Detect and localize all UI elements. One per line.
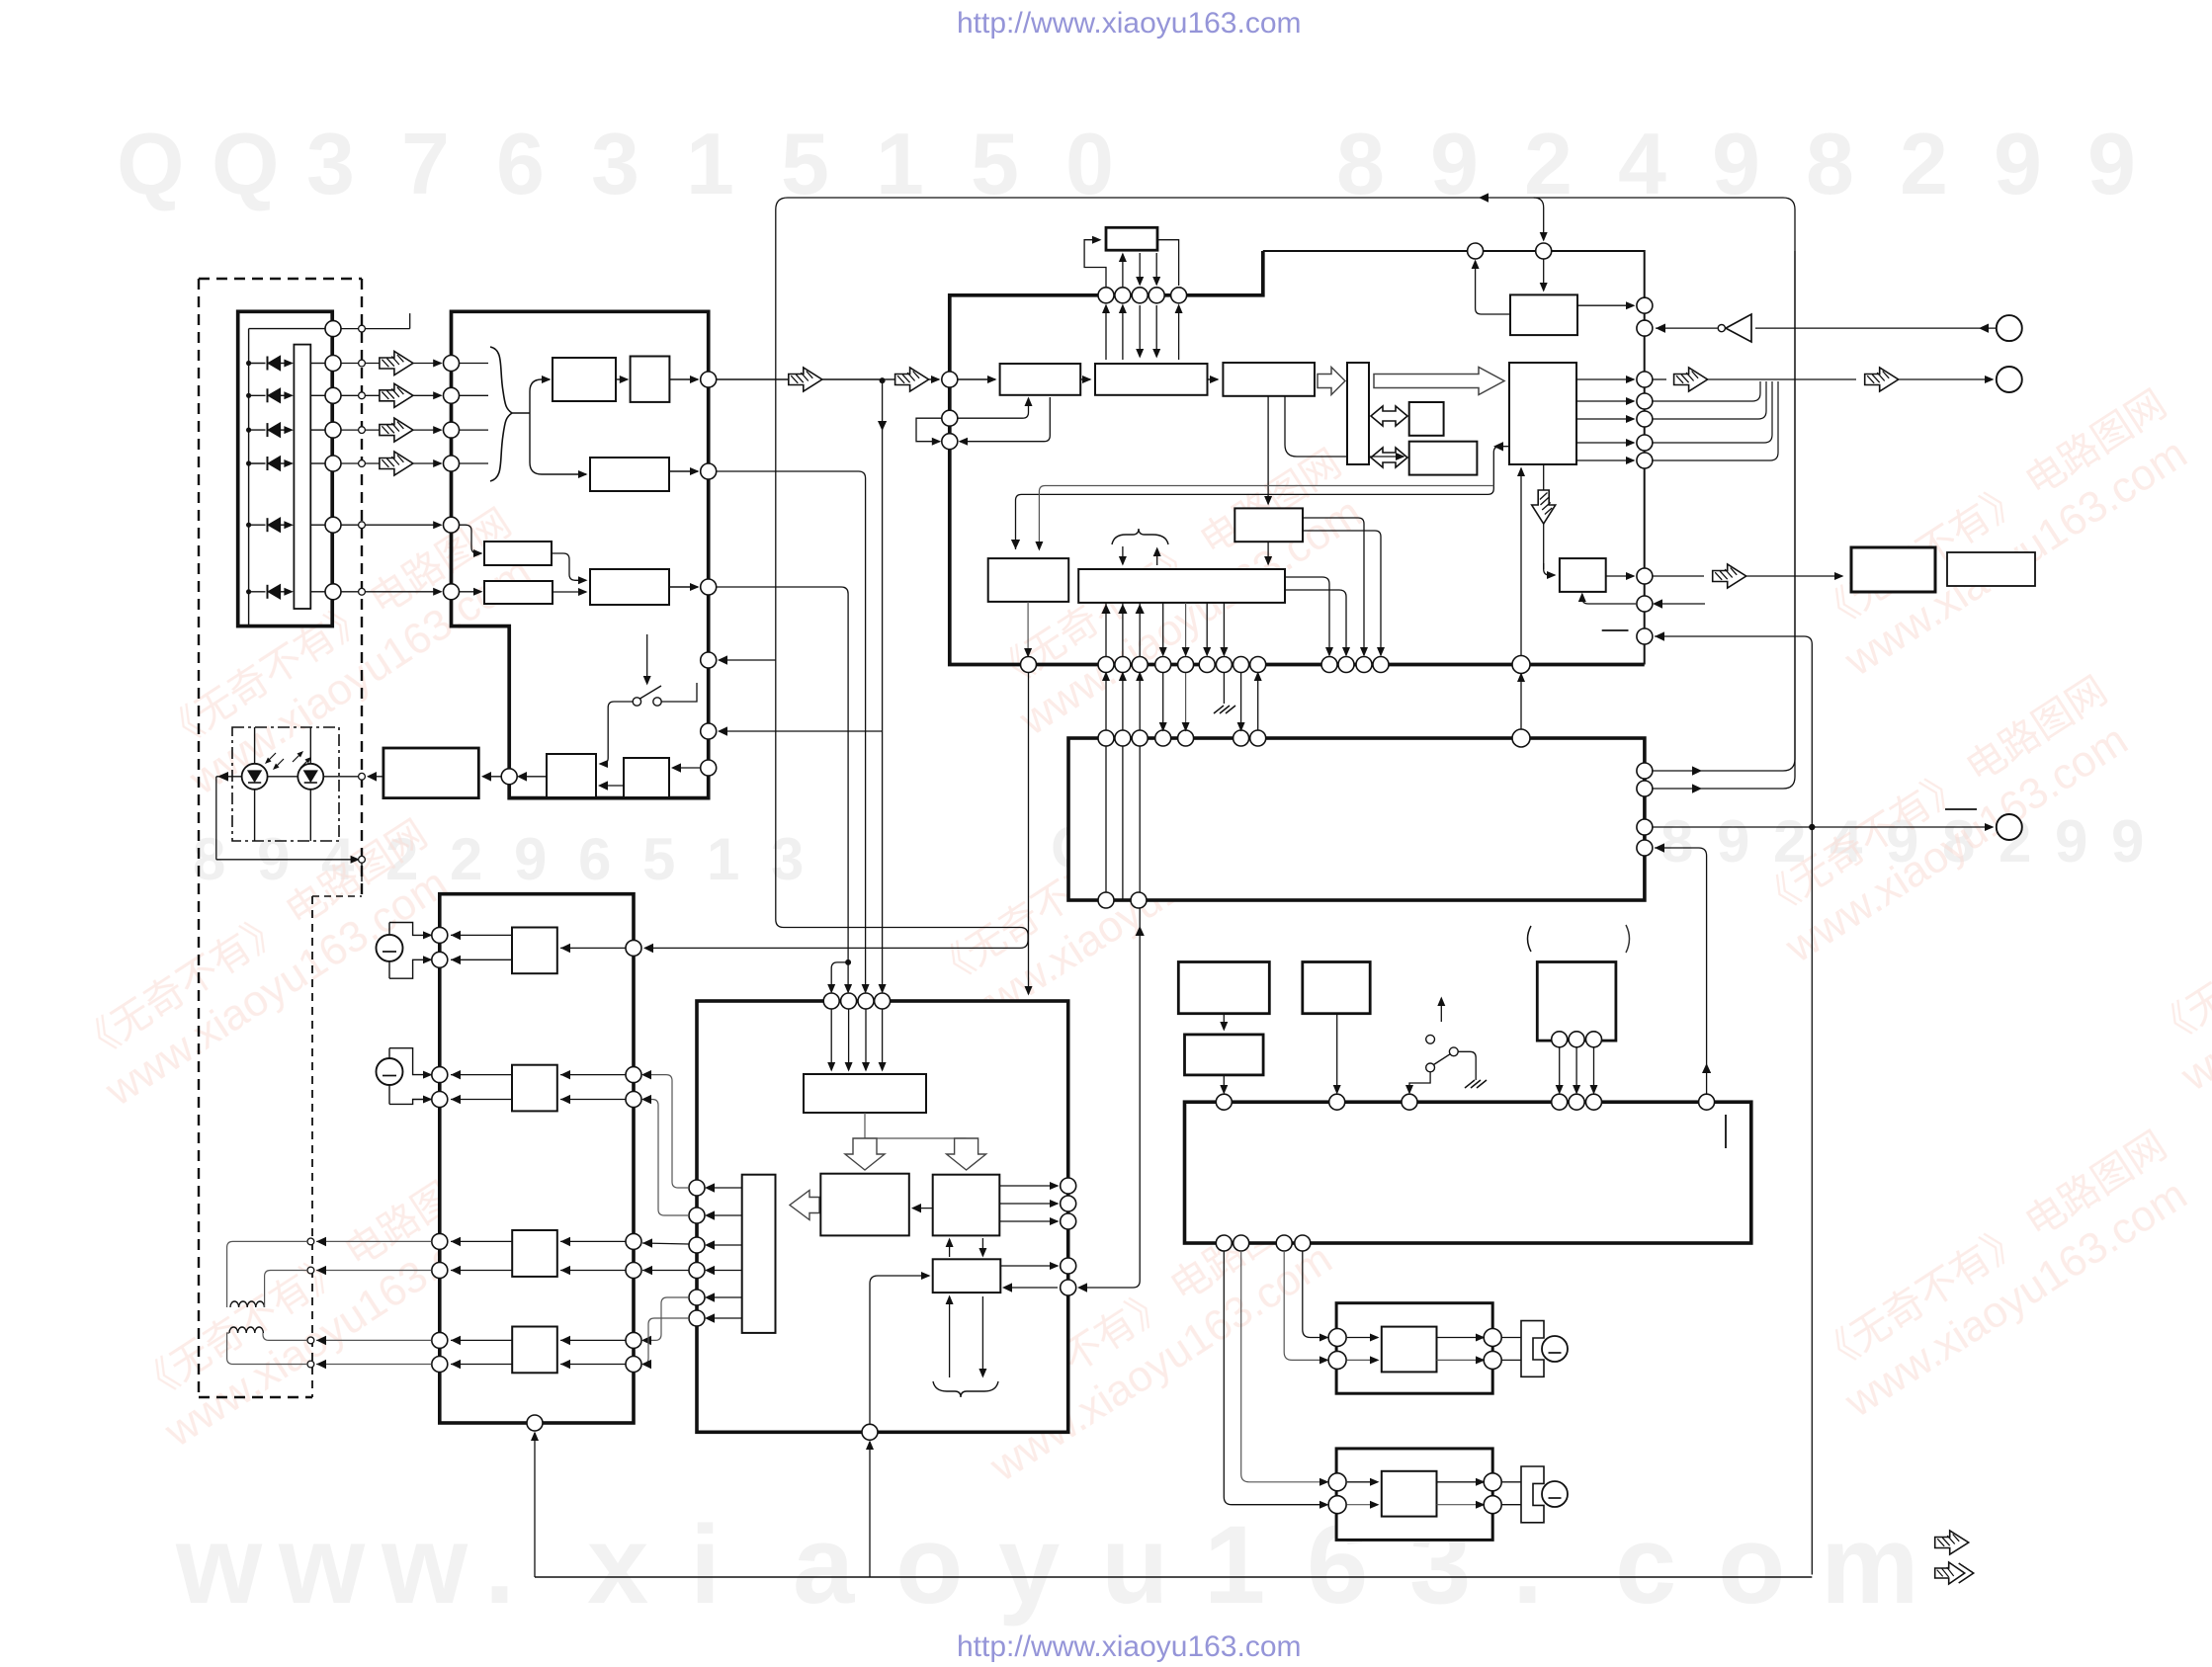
merge curve 1: [1653, 381, 1760, 401]
servo input selector block: [804, 1074, 926, 1113]
door switch ground symbol: [1465, 1080, 1475, 1088]
photodiode D6: [246, 589, 251, 594]
wire loopin to amp M1: [560, 947, 626, 949]
DSP bottom pins: [1021, 657, 1037, 673]
loop junction curve to reset circle: [1534, 198, 1544, 240]
wire RF OUT to DSP: [717, 378, 788, 380]
RF amp input pin row 5: [444, 517, 460, 533]
DSP decoder IC block: [1263, 251, 1645, 665]
TE block A: [484, 542, 552, 565]
svg-text:w: w: [381, 1503, 468, 1626]
svg-text:1: 1: [686, 115, 734, 212]
display driver Q3: [1185, 1035, 1264, 1075]
pickup wire row 2: [310, 394, 324, 396]
key block Q2: [1303, 962, 1370, 1014]
SDRAM block: [1106, 227, 1157, 250]
wire sub1 to servo demod: [1267, 542, 1269, 564]
focus error block: [590, 458, 669, 491]
wire Q3 to MCU: [1223, 1075, 1225, 1093]
display block Q1: [1178, 962, 1269, 1014]
wire FE to pin: [669, 470, 698, 472]
pickup pin row 6: [325, 584, 341, 600]
hatched flow arrow row 1: [380, 352, 413, 375]
servo proc P3: [933, 1259, 1001, 1292]
wire reset left loop: [1476, 261, 1510, 314]
wire resetcircle to reset block: [1543, 259, 1545, 291]
flex connector mark row 2: [341, 394, 359, 396]
bar output wires: [707, 1187, 742, 1189]
wires amp M2 inputs: [560, 1074, 626, 1076]
spindle motor M1: [388, 923, 390, 979]
brace output wire: [512, 412, 530, 414]
photodiode D4: [246, 460, 251, 465]
svg-text:1: 1: [1204, 1503, 1265, 1626]
pickup wire row 4: [310, 462, 324, 464]
watermark digits row top: [117, 115, 2136, 212]
svg-text:3: 3: [591, 115, 639, 212]
wire P2 to P1: [913, 1208, 933, 1209]
headphone jack L: [1521, 1321, 1544, 1377]
power left pins: [689, 1180, 705, 1196]
mute wire to IO: [1653, 826, 1993, 828]
pickup pin row 5: [325, 517, 341, 533]
RF amp input pin row 2: [444, 387, 460, 403]
svg-text:2: 2: [450, 826, 482, 892]
monitor photodiode PD: [309, 727, 311, 764]
brace below P3: [933, 1381, 998, 1397]
VC wire to step: [365, 328, 409, 330]
pickup wire row 5: [310, 524, 324, 526]
summing brace: [490, 347, 512, 481]
audio R amp IC: [1382, 1471, 1437, 1517]
RAM block B1: [1409, 402, 1444, 436]
legend arrow double: [1935, 1562, 1974, 1584]
wire loop branch to RF pin 668: [720, 659, 776, 661]
audio R wires: [1347, 1481, 1378, 1483]
resonator block: [1537, 962, 1616, 1042]
PD light arrows: [293, 753, 301, 762]
merge curve 2: [1653, 381, 1766, 419]
svg-text:u: u: [1101, 1503, 1168, 1626]
power bottom feed: [869, 1442, 871, 1577]
core feedback wire 2: [1039, 486, 1493, 550]
PLL loop pins: [942, 410, 958, 426]
wire sub to reference: [600, 785, 624, 787]
inverter gate: [1726, 314, 1751, 342]
svg-text:y: y: [998, 1503, 1060, 1626]
paren marks: [1528, 926, 1532, 952]
wire strategy to sub1: [1267, 396, 1269, 504]
RF amp right pin y477: [701, 463, 717, 479]
decoder core block: [1509, 363, 1576, 464]
svg-text:.: .: [484, 1503, 515, 1626]
svg-text:c: c: [1615, 1503, 1676, 1626]
ROM block B2: [1409, 442, 1478, 475]
PLL loop wires: [958, 398, 1029, 418]
wire row 2 to RF amp: [365, 394, 441, 396]
svg-text:8: 8: [1806, 115, 1854, 212]
DSP right edge pins: [1637, 297, 1653, 313]
big feedback loop wire: [645, 198, 1795, 948]
hollow arrow to P1: [845, 1138, 885, 1170]
DAC bar: [742, 1175, 776, 1333]
RF amp right pin y777: [701, 760, 717, 776]
core output wires: [1576, 378, 1634, 380]
lower dashed enclosure: [312, 895, 362, 897]
wire APC sense to LD pin: [519, 776, 547, 778]
flex connector mark row 5: [341, 524, 359, 526]
hatched flow arrow row 3: [380, 418, 413, 442]
TE mix block: [590, 569, 669, 605]
wires driver pins to dashed connector: [316, 1240, 432, 1242]
wire pin row6 to TE B: [460, 591, 481, 593]
wire row 3 to RF amp: [365, 429, 441, 431]
dashed stub below: [361, 863, 363, 896]
SDRAM loop right: [1157, 240, 1179, 286]
servo status drop wire: [1079, 908, 1140, 1288]
servo demod to bottom pins: [1105, 603, 1107, 658]
ground pin stub: [1223, 673, 1225, 704]
audio L wires: [1347, 1337, 1378, 1339]
wire LD line: [216, 776, 359, 778]
wire Q1 to Q3: [1223, 1014, 1225, 1030]
wire LD pin to APC: [483, 776, 501, 778]
wire reset out: [1577, 304, 1634, 306]
flex connector mark row 1: [341, 363, 359, 365]
DSP top pins: [1098, 288, 1114, 303]
wire EQ1 to EQ2: [616, 378, 628, 380]
svg-text:5: 5: [642, 826, 675, 892]
driver right pins: [626, 940, 641, 956]
bidir arrow 2: [1371, 448, 1407, 467]
servo brace: [1112, 529, 1168, 544]
watermark bottom big text: [175, 1503, 1919, 1626]
coil wiring: [227, 1241, 307, 1307]
audio L out pins: [1484, 1329, 1501, 1347]
RF amplifier IC block: [452, 311, 709, 797]
wire row 4 to RF amp: [365, 462, 441, 464]
APC amp block: [383, 748, 478, 798]
servo brace wires: [1122, 546, 1124, 564]
interface right pins: [1637, 763, 1653, 779]
overline tick 644: [1602, 629, 1629, 631]
photodiode D5: [246, 523, 251, 528]
photodiode IC bar: [294, 345, 310, 609]
wire sub1 out A: [1303, 518, 1364, 655]
narrow data arrow: [1318, 368, 1345, 395]
RF amp right pin y740: [701, 723, 717, 739]
wire power pin to M2b: [643, 1100, 689, 1216]
wire RF pin to sub block: [673, 767, 700, 769]
svg-text:.: .: [1512, 1503, 1543, 1626]
TE block B: [484, 581, 553, 604]
MCU to audio L wires: [1303, 1251, 1327, 1338]
pickup pin row 2: [325, 387, 341, 403]
svg-text:9: 9: [2055, 808, 2087, 875]
interface bottom pins: [1098, 892, 1114, 908]
flex connector mark VC: [341, 328, 359, 330]
core down hatched path: [1543, 464, 1545, 569]
driver amp S2: [512, 1327, 557, 1374]
wire TE A to mix: [552, 553, 586, 580]
MCU pin tick: [1725, 1115, 1727, 1148]
pickup pin row 4: [325, 456, 341, 471]
EQ block 1: [553, 358, 616, 401]
bottom ground bus wire: [535, 1576, 1812, 1578]
RF amp input pin row 1: [444, 356, 460, 372]
interface interior drops: [1105, 746, 1107, 892]
P3 lower stubs: [949, 1296, 951, 1377]
wire power pin to S1a: [642, 1243, 689, 1244]
flex connector mark row 6: [341, 591, 359, 593]
bus to demux lines: [1105, 305, 1107, 360]
wire TE B to mix: [553, 591, 586, 593]
svg-text:a: a: [793, 1503, 855, 1626]
wire TE branch: [831, 962, 848, 992]
svg-text:9: 9: [2087, 115, 2136, 212]
photodiode D1: [246, 361, 251, 366]
hatched flow arrow row 2: [380, 383, 413, 407]
switch right wire: [661, 683, 697, 702]
wire sub1 out B: [1303, 531, 1381, 655]
wire power pin to S2b: [642, 1318, 689, 1365]
hatched flow arrow row 4: [380, 452, 413, 475]
svg-text:i: i: [690, 1503, 721, 1626]
power right pins: [1061, 1178, 1076, 1194]
core to bottom pin wire: [1520, 468, 1522, 658]
driver left pins: [432, 927, 448, 943]
svg-text:2: 2: [1900, 115, 1948, 212]
MCU bottom pins: [1216, 1235, 1232, 1251]
servo proc P2: [933, 1175, 1000, 1236]
watermark digits row middle: [193, 808, 2144, 892]
pickup wire row 3: [310, 429, 324, 431]
selector to P1 P2 path: [865, 1113, 967, 1138]
RF amp right pin y668: [701, 652, 717, 668]
svg-text:8: 8: [1660, 808, 1693, 875]
svg-text:w: w: [278, 1503, 366, 1626]
stub wire 611: [1655, 603, 1705, 605]
door switch ground wire: [1458, 1051, 1476, 1080]
RF amp input pin row 4: [444, 456, 460, 471]
legend arrow single: [1935, 1531, 1969, 1554]
P3 input wire: [1004, 1287, 1058, 1289]
system control MCU block: [1185, 1102, 1751, 1243]
wire pin to eq block: [958, 378, 995, 380]
wire APC to LD line: [368, 776, 383, 778]
resonator pins: [1552, 1032, 1568, 1047]
svg-text:9: 9: [1717, 808, 1749, 875]
wire mid branch to RF pin 740: [720, 730, 883, 732]
wire CLV to pin: [1606, 575, 1634, 577]
focus coil: [230, 1301, 264, 1307]
tracking coil: [229, 1327, 263, 1333]
flex connector mark row 3: [341, 429, 359, 431]
audio L in pins: [1328, 1329, 1346, 1347]
RF amp right pin y594: [701, 579, 717, 595]
wire Q2 to MCU: [1336, 1014, 1338, 1093]
APC sub block: [624, 758, 669, 797]
power bottom interior wire: [870, 1276, 929, 1424]
wire strategy to buffer2: [1285, 396, 1404, 457]
SDRAM bus line 2: [1122, 254, 1124, 288]
RF amp input pin row 3: [444, 422, 460, 438]
servo demod right outs: [1285, 577, 1329, 655]
svg-text:o: o: [1718, 1503, 1785, 1626]
RF amp input pin row 6: [444, 584, 460, 600]
photodiode D2: [246, 393, 251, 398]
digital out wire: [1653, 378, 1666, 380]
switch control wire: [646, 634, 648, 684]
SDRAM bus line 3: [1139, 253, 1141, 285]
power bottom pin: [862, 1424, 878, 1440]
pickup wire row 1: [310, 363, 324, 365]
wire pin row5 to TE A: [460, 525, 481, 553]
photodiode D3: [246, 428, 251, 433]
svg-text:6: 6: [578, 826, 611, 892]
wire PD return line: [215, 777, 217, 860]
audio R out pins: [1484, 1473, 1501, 1491]
svg-text:9: 9: [1994, 115, 2042, 212]
power top pins: [823, 993, 839, 1009]
servo driver power block: [697, 1001, 1068, 1432]
IO circle mute: [1997, 814, 2022, 840]
flex connector mark row 4: [341, 462, 359, 464]
wire power pin to S2a: [643, 1297, 689, 1340]
wire EQ2 to RF OUT pin: [669, 378, 698, 380]
LD light arrows: [267, 753, 276, 762]
inverter output wire: [1656, 327, 1718, 329]
headphone jack R: [1521, 1466, 1544, 1523]
EQ block 2: [631, 357, 670, 402]
pickup dashed enclosure: [199, 278, 362, 280]
DSP sub1 block: [1234, 508, 1303, 542]
P3 output wire: [1000, 1265, 1058, 1267]
DSP eq block: [1000, 364, 1081, 395]
pickup pin row 3: [325, 422, 341, 438]
RF input pin: [942, 372, 958, 387]
laser drive pin: [501, 769, 517, 785]
wire FE long run: [717, 471, 866, 992]
audio L amp IC: [1382, 1327, 1437, 1373]
SDRAM bus line 4: [1155, 253, 1157, 285]
merge curve 4: [1653, 381, 1778, 460]
P2 output wires: [999, 1185, 1058, 1187]
svg-text:x: x: [587, 1503, 648, 1626]
focus switch: [633, 698, 640, 706]
osc block H: [1947, 552, 2035, 586]
SDRAM loop left: [1084, 240, 1106, 288]
feedback loop branch 2: [1653, 251, 1795, 789]
input mux drops: [830, 1009, 832, 1070]
APC reference block: [547, 754, 596, 797]
top edge circles: [1536, 243, 1552, 259]
svg-text:Q: Q: [117, 115, 184, 212]
reset block: [1510, 294, 1577, 335]
long sense wire W1: [1655, 636, 1812, 1575]
wire row 1 to RF amp: [365, 363, 441, 365]
svg-text:m: m: [1821, 1503, 1919, 1626]
driver bottom pin: [527, 1415, 543, 1431]
shift register bar: [1347, 363, 1369, 464]
input lines to summing brace: [460, 363, 488, 365]
door switch arrow: [1440, 998, 1442, 1022]
driver amp M1: [512, 928, 557, 974]
wire RFOUT junction drop: [882, 380, 884, 992]
door switch wire to MCU: [1409, 1072, 1430, 1093]
svg-text:9: 9: [2111, 808, 2144, 875]
door switch: [1426, 1035, 1435, 1043]
switch left wire to APC: [600, 702, 633, 764]
driver amp S1: [512, 1230, 557, 1277]
wire pin to CLV bottom: [1582, 594, 1636, 604]
P2 P3 stubs: [949, 1239, 951, 1257]
wire mix to pin: [669, 586, 698, 588]
svg-text:1: 1: [707, 826, 739, 892]
svg-text:9: 9: [514, 826, 547, 892]
svg-text:6: 6: [496, 115, 545, 212]
laser diode LD: [254, 727, 256, 764]
driver amp M2: [512, 1065, 557, 1112]
pickup internal bus wire: [248, 329, 250, 626]
interface connector block: [1068, 738, 1645, 900]
bidir arrow 1: [1371, 406, 1407, 426]
osc block G: [1851, 547, 1935, 592]
DSP strategy block: [1223, 363, 1315, 396]
pickup wire row 6: [310, 591, 324, 593]
DSP bottom big pin: [1512, 656, 1530, 674]
IO circle digital out: [1997, 367, 2022, 392]
driver bottom feed: [534, 1433, 536, 1577]
interface top pins: [1098, 730, 1114, 746]
audio amp block L: [1336, 1303, 1492, 1394]
subcode block: [988, 558, 1068, 602]
wire power pin to S1b: [642, 1270, 689, 1272]
overline tick mute: [1945, 808, 1977, 810]
wire power pin to M2a: [643, 1075, 689, 1188]
svg-text:o: o: [895, 1503, 963, 1626]
svg-text:w: w: [175, 1503, 263, 1626]
hollow arrow to P2: [947, 1138, 986, 1170]
merge curve 3: [1653, 381, 1772, 443]
svg-text:http://www.xiaoyu163.com: http://www.xiaoyu163.com: [957, 7, 1302, 40]
servo demod wide block: [1078, 569, 1285, 603]
MCU top pins: [1216, 1094, 1232, 1110]
wire DSP bottom to power block top: [1028, 673, 1030, 994]
RF amp right pin y384: [701, 372, 717, 387]
PLL external loop: [916, 418, 942, 442]
servo proc P1: [820, 1174, 909, 1236]
wire TE long run: [717, 587, 848, 992]
wire row 6 to RF amp: [365, 591, 441, 593]
ground symbol: [1214, 706, 1224, 713]
key wire W2: [1655, 848, 1707, 1094]
inverter input wire: [1755, 327, 1996, 329]
audio R in pins: [1328, 1473, 1346, 1491]
MCU to audio R wires: [1241, 1251, 1327, 1482]
svg-text:http://www.xiaoyu163.com: http://www.xiaoyu163.com: [957, 1630, 1302, 1662]
hollow arrow bar: [790, 1191, 819, 1220]
audio amp block R: [1336, 1449, 1492, 1541]
CLV block: [1560, 558, 1606, 592]
wire subcode to pin: [1027, 602, 1029, 656]
clock out wire: [1653, 575, 1704, 577]
optical pickup block: [238, 311, 333, 625]
watermark pink diagonals: [69, 382, 2212, 1491]
motor driver block: [440, 894, 634, 1423]
DSP demod block: [1095, 364, 1208, 395]
IO circle digital in: [1997, 315, 2022, 341]
